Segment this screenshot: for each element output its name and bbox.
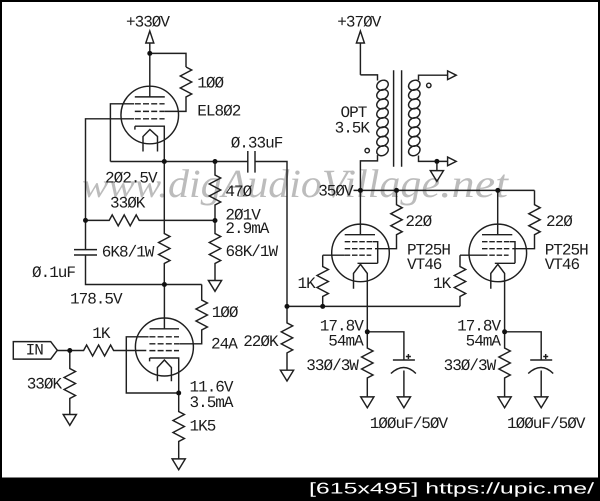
svg-text:3.5mA: 3.5mA xyxy=(190,394,234,412)
svg-text:.net: .net xyxy=(440,161,509,206)
svg-text:EL8Ø2: EL8Ø2 xyxy=(197,103,240,121)
svg-text:178.5V: 178.5V xyxy=(70,291,123,309)
svg-text:68K/1W: 68K/1W xyxy=(226,243,279,261)
svg-text:22Ø: 22Ø xyxy=(546,213,573,231)
svg-text:33ØK: 33ØK xyxy=(27,375,63,393)
svg-text:47Ø: 47Ø xyxy=(225,183,252,201)
svg-text:6K8/1W: 6K8/1W xyxy=(102,243,155,261)
svg-text:54mA: 54mA xyxy=(466,332,502,350)
svg-text:2Ø2.5V: 2Ø2.5V xyxy=(105,170,158,188)
svg-text:1ØØuF/5ØV: 1ØØuF/5ØV xyxy=(370,415,449,433)
svg-text:Ø.1uF: Ø.1uF xyxy=(32,264,75,282)
svg-text:35ØV: 35ØV xyxy=(318,183,354,201)
svg-text:54mA: 54mA xyxy=(328,332,364,350)
svg-text:1K: 1K xyxy=(298,275,317,293)
svg-text:1ØØ: 1ØØ xyxy=(197,75,224,93)
svg-text:22Ø: 22Ø xyxy=(405,213,432,231)
svg-text:1ØØuF/5ØV: 1ØØuF/5ØV xyxy=(507,415,586,433)
svg-text:1K: 1K xyxy=(433,275,452,293)
svg-text:1K5: 1K5 xyxy=(190,418,216,436)
svg-text:24A: 24A xyxy=(211,336,238,354)
svg-text:3.5K: 3.5K xyxy=(335,120,371,138)
svg-text:33Ø/3W: 33Ø/3W xyxy=(444,357,497,375)
svg-text:2.9mA: 2.9mA xyxy=(225,220,269,238)
svg-text:1K: 1K xyxy=(92,325,111,343)
svg-text:Ø.33uF: Ø.33uF xyxy=(231,134,283,152)
svg-text:IN: IN xyxy=(26,341,44,359)
svg-text:+37ØV: +37ØV xyxy=(337,14,381,32)
svg-text:[615x495] https://upic.me/: [615x495] https://upic.me/ xyxy=(309,481,595,498)
svg-text:22ØK: 22ØK xyxy=(243,333,279,351)
svg-text:33ØK: 33ØK xyxy=(110,194,146,212)
svg-text:VT46: VT46 xyxy=(545,256,580,274)
svg-text:1ØØ: 1ØØ xyxy=(212,304,239,322)
svg-text:VT46: VT46 xyxy=(407,256,442,274)
svg-text:+33ØV: +33ØV xyxy=(126,14,170,32)
svg-text:33Ø/3W: 33Ø/3W xyxy=(306,357,359,375)
